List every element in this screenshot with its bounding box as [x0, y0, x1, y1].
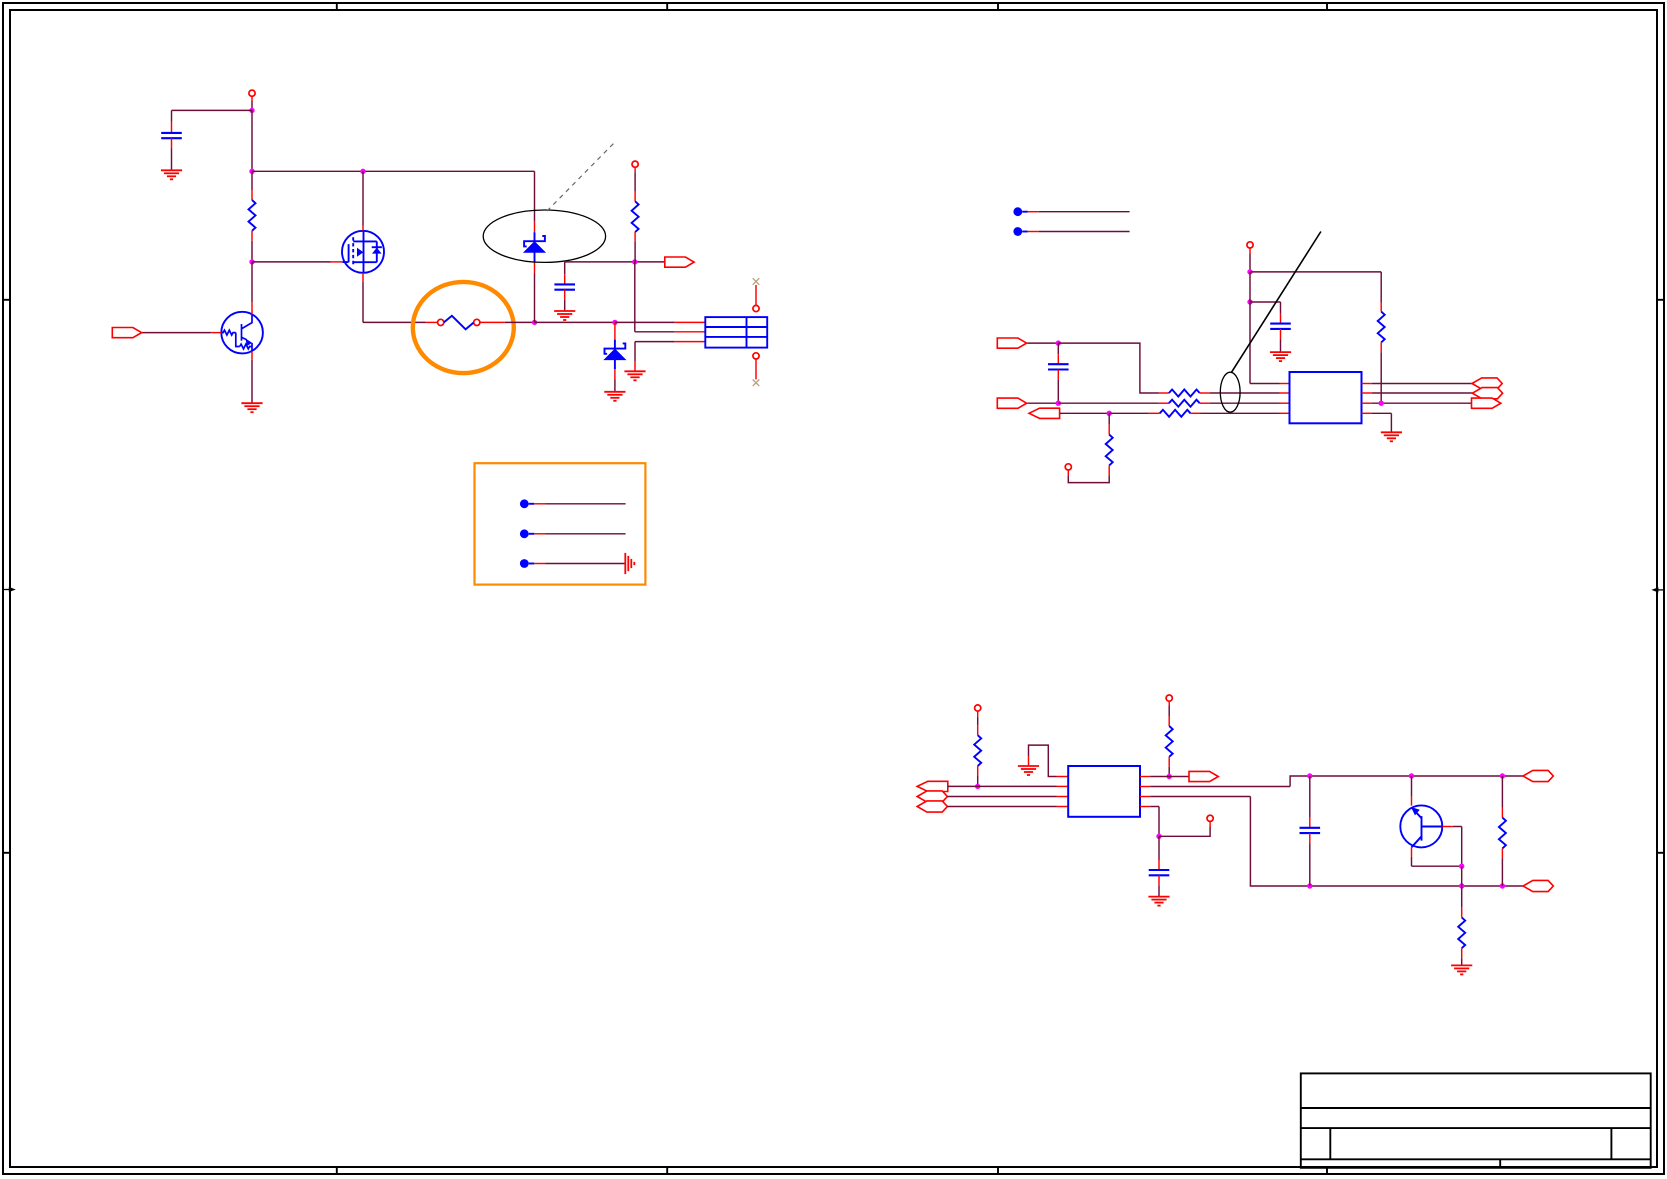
port P6 (open circle) [1166, 695, 1172, 701]
port (input arrow) IN [112, 328, 141, 338]
wire R6 to U1 pin 4 [1191, 412, 1290, 414]
port (bidirectional) right bottom [1523, 880, 1553, 891]
wire bus to Q1 drain [362, 171, 364, 231]
wire rail to R10 [1501, 776, 1503, 818]
wire U1 pin 5 to ground [1362, 412, 1392, 414]
node C junction (fuse/zener D1) [532, 320, 537, 325]
port (output arrow) net VOUT [665, 257, 694, 267]
wire R7 to port P4 [1068, 475, 1109, 482]
wire Q3 collector to node M [1412, 865, 1462, 867]
wire node A down to bus [251, 110, 253, 171]
frame zone ticks bottom [337, 1167, 1327, 1174]
pin R7 bottom [1108, 465, 1110, 475]
wire P6 to R9 [1168, 701, 1170, 726]
port (output arrow) A [997, 338, 1026, 348]
bus wire VIN [252, 170, 535, 172]
wire connector J1 pin 3 to ground branch [635, 341, 705, 343]
port (bidirectional) right 2 [1472, 388, 1502, 399]
title block [1301, 1073, 1651, 1167]
node F junction [1247, 299, 1252, 304]
annotation ellipse around D1 [483, 210, 605, 262]
wire P3 down [1249, 248, 1251, 272]
wire down to C1 [171, 110, 173, 132]
wire R10 to bottom rail [1501, 848, 1503, 886]
wire U2 pin 6 right [1140, 796, 1251, 798]
port P1 (open circle, top supply) [249, 90, 255, 96]
port (bidirectional) right top [1523, 770, 1553, 781]
wire Q3 collector down [1411, 847, 1413, 866]
ground (C3) [1270, 352, 1291, 361]
port (output arrow) right 3 [1472, 398, 1501, 408]
ground (U2 pin 1) [1018, 766, 1039, 775]
wire node B2 down to connector row 2 [634, 262, 636, 332]
wire P5 to R8 [977, 711, 979, 735]
frame zone ticks left/right [3, 300, 1665, 853]
net stub line 1 [529, 503, 626, 505]
annotation dashed leader line [547, 142, 615, 211]
wire C2 to ground [564, 290, 566, 311]
ground (C6) [1148, 897, 1169, 906]
resistor R4 [1169, 390, 1200, 397]
wire U1 pin 8 to port [1362, 383, 1473, 385]
MOSFET Q1 (P-channel with body diode) [342, 231, 384, 273]
resistor R11 [1458, 917, 1465, 948]
wire U2 pin 7 right [1140, 786, 1290, 788]
port (input arrow) C [1029, 408, 1060, 418]
wire P1 to node A [251, 96, 253, 110]
IC U2 [1068, 766, 1140, 817]
wire U2 pin 5 right [1140, 806, 1159, 808]
wire Q2 collector to node B [251, 262, 253, 315]
wire C4 to node H [1057, 370, 1059, 404]
wire R5 to U1 pin 3 [1200, 402, 1290, 404]
wire U1 pin 6 to port [1362, 402, 1472, 404]
ground (C2) [554, 311, 575, 320]
fuse F1 (orange highlight circle) [413, 282, 514, 373]
port (bidirectional) E [917, 791, 947, 802]
wire node G down to C4 [1057, 343, 1059, 364]
wire Q1 source to fuse F1 [363, 321, 438, 323]
node B2 junction [632, 259, 637, 264]
wire to connector J1 pin 2 [635, 331, 706, 333]
wire NC top [755, 285, 757, 305]
resistor R8 [974, 735, 981, 766]
resistor R5 [1169, 400, 1200, 407]
open circle (NC bottom) [753, 353, 759, 359]
port P4 (open circle) [1065, 464, 1071, 470]
zener diode D1 [524, 232, 545, 261]
wire R4 to U1 pin 2 [1200, 392, 1290, 394]
ground (legend, rotated) [625, 553, 634, 574]
junction R3 bottom / pin 6 net [1379, 401, 1384, 406]
pin to P7 [1209, 821, 1211, 827]
node L junction [1156, 834, 1161, 839]
ground (R11) [1451, 965, 1472, 974]
wire node E/F down to U1 pin1 [1249, 272, 1251, 384]
wire node I down to R7 [1108, 413, 1110, 434]
wire node B to Q1 gate [252, 261, 342, 263]
pin U2 1 [1057, 776, 1069, 778]
rail junction (R11) [1459, 883, 1464, 888]
rail junction (Q3 emitter) [1409, 773, 1414, 778]
zener diode D2 [605, 340, 626, 369]
frame center arrow right [1651, 587, 1664, 592]
pin to port P4 [1067, 470, 1069, 476]
legend box (orange) [475, 463, 646, 584]
capacitor C6 [1149, 870, 1170, 875]
wire node H to R5 [1058, 402, 1169, 404]
net stub dot 1 [520, 499, 529, 508]
wire port C to node I [1060, 412, 1109, 414]
annotation ellipse (top-right) [1220, 372, 1240, 412]
open circle (NC top) [753, 305, 759, 311]
node J junction [975, 784, 980, 789]
wire C6 to ground [1158, 875, 1160, 896]
resistor R10 [1499, 818, 1506, 849]
capacitor C5 [1300, 828, 1321, 833]
wire fuse F1 to node C [480, 321, 535, 323]
wire port A to node G [1027, 342, 1058, 344]
wire U1 pin 7 to port [1362, 392, 1473, 394]
wire node L to C6 [1158, 836, 1160, 870]
rail junction (C5 bottom) [1307, 883, 1312, 888]
rail junction (C5) [1307, 773, 1312, 778]
wire Q1 source down [362, 273, 364, 323]
wire R9 to node K [1168, 757, 1170, 777]
transistor Q2 (digital NPN with base resistors) [221, 312, 263, 354]
node A junction [249, 108, 254, 113]
frame zone ticks top [337, 3, 1327, 11]
wire zener D1 to node C [534, 262, 536, 323]
wire U2 pin 1 to ground [1029, 745, 1057, 776]
port (input arrow) D [917, 781, 948, 791]
rail junction (R10) [1500, 773, 1505, 778]
wire R8 to node J [977, 766, 979, 786]
wire R3 to row3 junction [1380, 342, 1382, 403]
resistor R7 [1106, 435, 1113, 466]
bus junction at Q1 drain [360, 169, 365, 174]
resistor R9 [1166, 726, 1173, 757]
wire node D to zener D2 [614, 322, 616, 339]
wire R2 to node B2 [634, 232, 636, 262]
resistor R1 [249, 200, 256, 231]
capacitor C2 [554, 284, 575, 289]
port P7 (open circle) [1207, 815, 1213, 821]
wire C5 to bottom rail [1309, 833, 1311, 886]
wire Q2 emitter to ground [251, 351, 253, 403]
no-connect X (top) [753, 278, 760, 285]
bus junction at R1 top [249, 169, 254, 174]
wire node B2 horizontal [565, 261, 665, 263]
wire rail to C5 [1309, 776, 1311, 828]
wire node E to R3 branch [1250, 271, 1381, 273]
no-connect X (bottom) [753, 380, 760, 387]
wire node G to R4 [1058, 343, 1159, 393]
transistor Q3 (BJT) [1400, 805, 1442, 847]
wire NC bottom [755, 359, 757, 379]
resistor R6 [1160, 410, 1191, 417]
ground (connector pin 3) [624, 371, 645, 380]
wire P2 to R2 [634, 167, 636, 201]
wire node C to node D [535, 321, 615, 323]
net stub dot 5 [1013, 227, 1022, 236]
wire port F to U2 pin 4 [947, 806, 1068, 808]
node K junction [1167, 774, 1172, 779]
wire bus to R1 [251, 171, 253, 200]
ground (D2) [604, 392, 625, 401]
wire R1 to node B [251, 231, 253, 262]
wire C3 to ground [1280, 329, 1282, 352]
wire port to Q2 base [142, 332, 222, 334]
port (bidirectional) F [917, 801, 947, 812]
port P3 (open circle, supply) [1247, 242, 1253, 248]
capacitor C3 [1270, 324, 1291, 329]
node I junction (R7 top) [1107, 411, 1112, 416]
resistor R2 [632, 201, 639, 232]
ground (Q2) [241, 403, 262, 412]
port (output arrow) G [1189, 771, 1218, 781]
capacitor C4 [1048, 364, 1069, 369]
rail junction (R10 bottom) [1500, 883, 1505, 888]
wire down to R3 [1380, 272, 1382, 312]
net stub line 3 (to ground) [529, 563, 626, 565]
wire node A to C1 branch [172, 109, 253, 111]
ground (U1) [1381, 432, 1402, 441]
wire to ground pin [1028, 756, 1030, 766]
node H junction (C4 bottom) [1056, 401, 1061, 406]
wire node M rail to R11 [1461, 886, 1463, 917]
wire port D to U2 pin 2 [948, 785, 1068, 787]
wire node L to port P7 [1159, 827, 1210, 836]
port (bidirectional) right 1 [1472, 378, 1502, 389]
wire R11 to ground [1461, 948, 1463, 965]
port (output arrow) B [997, 398, 1026, 408]
wire port E to U2 pin 3 [947, 796, 1068, 798]
annotation leader line [1231, 232, 1321, 373]
node D junction (zener D2) [612, 320, 617, 325]
wire Q3 base right [1442, 826, 1461, 828]
wire down to C3 [1280, 302, 1282, 324]
IC U1 [1290, 372, 1362, 423]
wire U2 pin 8 to port [1140, 776, 1189, 778]
pin R4 left [1159, 392, 1169, 394]
capacitor C1 [161, 133, 182, 138]
net stub line 2 [529, 533, 626, 535]
net stub dot 4 [1013, 207, 1022, 216]
net stub line 5 [1022, 231, 1129, 233]
top rail wire [1290, 776, 1523, 787]
resistor R3 [1378, 312, 1385, 343]
wire pin3 branch to ground [634, 342, 636, 372]
wire pin5 down [1158, 807, 1160, 837]
node G junction (C4 top) [1056, 340, 1061, 345]
wire node I to R6 [1109, 412, 1160, 414]
connector J1 (3x2 block) [705, 317, 767, 348]
node E junction [1247, 269, 1252, 274]
wire zener D2 to ground [614, 369, 616, 392]
fuse F1 element [438, 316, 480, 330]
net stub line 4 [1022, 211, 1129, 213]
net stub dot 2 [520, 529, 529, 538]
frame center arrow left [3, 587, 16, 592]
wire node F to C3 branch [1250, 301, 1281, 303]
node M junction [1459, 864, 1464, 869]
wire down to ground [1390, 413, 1392, 432]
wire port B to node H [1027, 402, 1058, 404]
port P2 (open circle) [632, 161, 638, 167]
wire bus down to zener D1 [534, 171, 536, 232]
net stub dot 3 [520, 559, 529, 568]
node B junction (R1/Q2 collector/Q1 gate) [249, 259, 254, 264]
wire base down to node M [1461, 827, 1463, 867]
ground (C1) [161, 170, 182, 179]
wire rail to Q3 emitter [1411, 776, 1413, 806]
bottom rail wire [1250, 797, 1523, 887]
wire down to C2 [564, 262, 566, 285]
wire into U1 pin 1 [1250, 383, 1290, 385]
wire C1 to ground [171, 138, 173, 170]
port P5 (open circle) [975, 705, 981, 711]
wire node D to connector J1 pin 1 [615, 321, 705, 323]
wire node M to bottom rail [1461, 866, 1463, 886]
